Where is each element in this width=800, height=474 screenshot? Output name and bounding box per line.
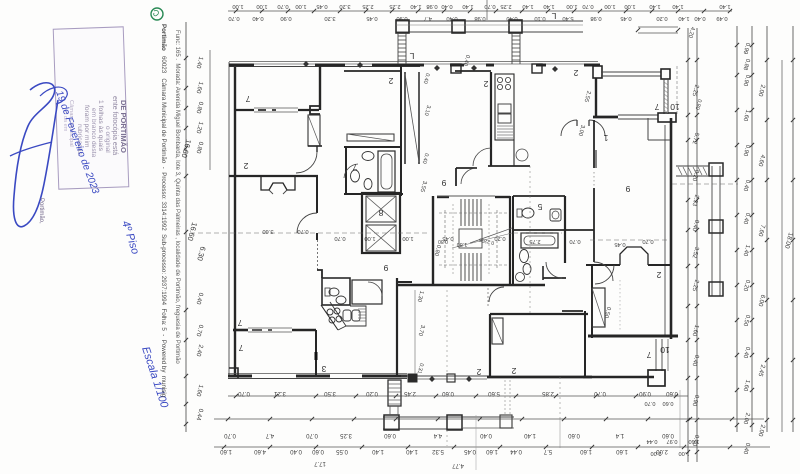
south balcony column 1 <box>384 415 399 430</box>
SE bedroom door arc <box>595 265 614 284</box>
projection lines bottom <box>475 415 477 470</box>
svg-text:Func: 165 . Morada: Avenida M: Func: 165 . Morada: Avenida Miguel Bomba… <box>174 30 180 364</box>
door arc right kitchen <box>473 148 491 166</box>
svg-text:0.44: 0.44 <box>510 448 522 454</box>
bath lower bathtub <box>521 233 558 248</box>
south facade left: sill lines <box>228 373 407 375</box>
outer wall: north facade thick piers <box>229 64 254 67</box>
svg-text:2.25: 2.25 <box>500 3 511 9</box>
svg-text:1.00: 1.00 <box>679 450 690 456</box>
bedroom SC walls <box>490 313 588 315</box>
NE step: wall y117 thick part <box>593 116 618 119</box>
svg-text:2.00: 2.00 <box>656 448 668 454</box>
corridor door arc east bottom <box>594 262 613 281</box>
svg-text:0.20: 0.20 <box>366 390 378 396</box>
svg-text:1.40: 1.40 <box>410 3 421 9</box>
kitchen east wall x397 <box>396 278 398 377</box>
NE step: corner pier right <box>661 69 670 79</box>
svg-text:2.75: 2.75 <box>529 238 540 244</box>
svg-text:0.98: 0.98 <box>426 3 437 9</box>
terrace wall below SE bedroom <box>584 311 586 378</box>
svg-text:1.00: 1.00 <box>402 235 413 241</box>
svg-text:0.70: 0.70 <box>228 15 239 21</box>
stair central landing rect <box>459 229 482 248</box>
svg-text:em branco desta: em branco desta <box>90 108 97 157</box>
svg-text:4.4: 4.4 <box>433 432 442 438</box>
top-right corner slab piece <box>638 26 678 28</box>
small wall below closet <box>308 145 322 147</box>
svg-text:0.60: 0.60 <box>312 448 324 454</box>
svg-text:17.7: 17.7 <box>314 460 326 466</box>
recess corner wall end <box>408 374 417 382</box>
south-east room bottom wall <box>588 335 678 338</box>
svg-text:0.45: 0.45 <box>614 241 625 247</box>
stove circles right kitchen <box>497 77 502 82</box>
north balcony slab edges <box>396 20 583 22</box>
duct shaft narrow with diagonal <box>404 72 406 164</box>
corridor-bath wall y230 <box>565 229 594 231</box>
SW room divider vertical x316 <box>315 330 317 377</box>
svg-text:3.20: 3.20 <box>324 15 335 21</box>
svg-text:7: 7 <box>646 350 651 360</box>
svg-text:0.97: 0.97 <box>667 438 678 444</box>
SE pier <box>648 370 665 386</box>
bath 7 door arc <box>344 164 358 178</box>
bath 5 toilet <box>517 209 522 217</box>
wardrobe strip room2-left <box>347 134 394 141</box>
svg-text:1.80: 1.80 <box>457 241 468 247</box>
door arc into room 2 left apt <box>296 152 317 173</box>
bath corridor walls SE corner <box>543 277 566 279</box>
svg-text:3.20: 3.20 <box>339 3 350 9</box>
stair dashed guides <box>444 210 446 270</box>
svg-text:5.40: 5.40 <box>562 15 573 21</box>
svg-text:5.60: 5.60 <box>488 390 500 396</box>
WC cell <box>322 278 350 305</box>
sink SW kitchen <box>343 310 351 321</box>
NE step: window band vertical <box>663 79 665 114</box>
svg-text:7: 7 <box>654 102 659 112</box>
bath 7 bidet <box>364 179 372 190</box>
svg-text:1.60: 1.60 <box>486 448 498 454</box>
top dimension chain line <box>228 10 732 12</box>
south balcony column 2 <box>447 415 462 430</box>
svg-text:0.70: 0.70 <box>334 235 345 241</box>
south hatched pier connector <box>389 406 391 415</box>
divider y110 hatch marks <box>258 109 266 111</box>
svg-text:8: 8 <box>378 208 383 218</box>
right double dimension lines <box>687 28 689 462</box>
svg-text:7: 7 <box>352 162 357 172</box>
bath lower door arc <box>546 262 562 278</box>
svg-text:0.45: 0.45 <box>620 15 631 21</box>
counter outline SW kitchen <box>346 306 366 326</box>
svg-text:o original: o original <box>104 126 111 153</box>
svg-text:0.40: 0.40 <box>480 432 492 438</box>
svg-text:L: L <box>409 51 414 61</box>
bath 5 washbasin <box>550 209 561 221</box>
svg-text:DE PORTIMÃO: DE PORTIMÃO <box>119 100 128 153</box>
center dashed dim line <box>190 232 430 234</box>
bottom dimension chains <box>228 395 688 397</box>
left apt: divider wall y110 <box>236 109 254 111</box>
stairwell walls <box>432 196 434 286</box>
small square on wall second <box>532 64 542 73</box>
svg-text:2.25: 2.25 <box>362 3 373 9</box>
dotted projection bottom-right <box>619 280 621 332</box>
north balcony hatched pier right <box>511 33 513 64</box>
door arc hall entry <box>461 168 477 184</box>
east balcony double rails <box>711 166 713 296</box>
Portimao logo top-left <box>151 8 163 20</box>
sink right kitchen <box>498 104 511 113</box>
svg-text:2.25: 2.25 <box>389 3 400 9</box>
svg-text:4.7: 4.7 <box>265 432 274 438</box>
svg-text:10: 10 <box>660 345 670 355</box>
svg-text:0.60: 0.60 <box>662 432 674 438</box>
svg-text:0.40: 0.40 <box>694 15 705 21</box>
svg-text:1.40: 1.40 <box>672 3 683 9</box>
svg-text:1.60: 1.60 <box>616 448 628 454</box>
south entrance recess thin line <box>401 375 490 377</box>
svg-text:0.45: 0.45 <box>464 448 476 454</box>
elevator shaft 8 <box>362 193 400 253</box>
niche trapezoid SE bedroom <box>620 247 648 265</box>
closet right of room 2 <box>308 115 320 146</box>
svg-text:0.90: 0.90 <box>639 390 651 396</box>
SE balcony pillar connector lines <box>655 339 657 371</box>
svg-text:0.60: 0.60 <box>384 432 396 438</box>
svg-text:0.70: 0.70 <box>582 3 593 9</box>
svg-text:1.40: 1.40 <box>372 448 384 454</box>
kitchenette top unit <box>352 280 382 304</box>
svg-text:2: 2 <box>511 366 516 376</box>
north balcony hatched pier left <box>397 33 399 64</box>
bath lower washbasin circle <box>516 273 525 282</box>
hall west wall x401 <box>400 66 402 196</box>
living room top wall y176 <box>229 175 318 177</box>
outer wall: north facade sill lines <box>229 61 598 63</box>
svg-text:4.7: 4.7 <box>424 15 432 21</box>
window right wall NE bedroom inner sill <box>595 150 597 168</box>
bath 7 walls <box>344 146 401 148</box>
svg-text:1.60: 1.60 <box>580 448 592 454</box>
door arc kitchenette <box>368 282 382 296</box>
svg-text:4.77: 4.77 <box>452 462 464 468</box>
svg-text:2: 2 <box>656 270 661 280</box>
NE step: dashed outside line <box>676 66 678 114</box>
WC toilet <box>325 288 330 296</box>
svg-text:4.60: 4.60 <box>254 448 266 454</box>
stair treads upper flight <box>460 199 462 226</box>
short dim line above middle column <box>486 0 488 20</box>
pier jog below x320 wall <box>310 106 320 114</box>
svg-text:3: 3 <box>321 364 326 374</box>
NE window band inner hatch <box>664 82 668 85</box>
north balcony column 3 <box>509 20 522 33</box>
svg-text:1.00: 1.00 <box>295 3 306 9</box>
svg-text:0.40: 0.40 <box>441 3 452 9</box>
south pier under kitchen (hatched) <box>388 380 401 406</box>
svg-text:0.70: 0.70 <box>569 238 580 244</box>
svg-text:0.90: 0.90 <box>280 15 291 21</box>
svg-text:0.45: 0.45 <box>316 3 327 9</box>
svg-text:1.40: 1.40 <box>406 448 418 454</box>
svg-text:0.60: 0.60 <box>442 390 454 396</box>
svg-text:2.85: 2.85 <box>542 390 554 396</box>
svg-text:Portimão,: Portimão, <box>38 198 44 224</box>
middle right walls near terrace <box>562 310 583 312</box>
NE bedroom wardrobe <box>647 118 649 140</box>
right apt corridor wall x594 lower <box>593 188 595 262</box>
window axis diamonds on north wall <box>434 65 440 71</box>
svg-text:0.49: 0.49 <box>716 15 727 21</box>
east balcony column A <box>709 163 723 176</box>
svg-text:1.40: 1.40 <box>678 15 689 21</box>
svg-text:7: 7 <box>238 343 243 353</box>
certification stamp box <box>53 27 129 189</box>
SE bedroom closet diagonal <box>592 288 605 327</box>
door arc SC bedroom top <box>489 287 504 302</box>
svg-text:0.45: 0.45 <box>366 15 377 21</box>
left apt: first vertical wall x320 <box>319 64 321 110</box>
svg-text:0.20: 0.20 <box>494 235 505 241</box>
bath 7 toilet <box>351 170 360 182</box>
top middle wall y71 left segment <box>344 70 401 72</box>
svg-text:9: 9 <box>625 184 630 194</box>
left vertical dimension chain <box>185 22 187 432</box>
svg-text:1 folhas às quais: 1 folhas às quais <box>97 100 104 152</box>
bath lower bidet <box>523 264 531 275</box>
svg-text:5.7: 5.7 <box>543 448 552 454</box>
svg-text:foram por mim: foram por mim <box>83 105 90 148</box>
svg-text:9: 9 <box>383 263 388 273</box>
stair diagonal pencil lines <box>470 228 512 243</box>
svg-text:1.00: 1.00 <box>364 235 375 241</box>
NE bedroom double door arcs <box>561 120 577 136</box>
right kitchen lower counter <box>495 140 530 166</box>
east connector hatch <box>676 165 709 167</box>
living room east wall x317 <box>316 176 318 213</box>
svg-text:1.40: 1.40 <box>543 3 554 9</box>
NE step: corner pier to east wall <box>658 113 676 122</box>
south facade left thick piers <box>228 375 252 378</box>
svg-text:0.40: 0.40 <box>290 448 302 454</box>
svg-text:5: 5 <box>537 202 542 212</box>
fireplace niche <box>261 177 295 190</box>
svg-text:1.00: 1.00 <box>566 3 577 9</box>
svg-text:ente fotocópia está: ente fotocópia está <box>111 96 118 155</box>
svg-text:1.40: 1.40 <box>649 3 660 9</box>
NE step: window y117 <box>618 114 658 116</box>
svg-text:0.45: 0.45 <box>442 235 453 241</box>
north balcony third slab line <box>396 24 583 26</box>
bedroom SE north wall <box>586 264 620 266</box>
svg-text:2.45: 2.45 <box>404 390 416 396</box>
NE step: window band horizontal <box>601 71 661 73</box>
south balcony slab lines <box>383 416 514 418</box>
east facade wall double <box>670 118 673 339</box>
dashed projection lines bottom <box>446 290 448 376</box>
svg-text:0.10: 0.10 <box>534 15 545 21</box>
north facade small piers squares <box>451 64 461 73</box>
svg-text:2: 2 <box>243 161 248 171</box>
svg-text:0.60: 0.60 <box>568 432 580 438</box>
svg-text:0.20: 0.20 <box>656 15 667 21</box>
svg-text:0.60: 0.60 <box>666 390 678 396</box>
svg-text:3.25: 3.25 <box>340 432 352 438</box>
bath 5 walls <box>513 195 565 197</box>
corner counter diagonal band <box>321 305 338 330</box>
svg-text:1.40: 1.40 <box>719 3 730 9</box>
bath lower toilet <box>520 250 529 263</box>
NE step: corner pier at top wall end <box>593 66 602 78</box>
svg-text:0.70: 0.70 <box>306 432 318 438</box>
svg-text:0.55: 0.55 <box>336 448 348 454</box>
stove circles SW kitchen <box>327 309 333 315</box>
svg-text:2: 2 <box>573 68 578 78</box>
wall corner above WC <box>317 270 322 278</box>
svg-text:7: 7 <box>245 94 250 104</box>
svg-text:1.60: 1.60 <box>220 448 232 454</box>
svg-text:0.44: 0.44 <box>647 438 658 444</box>
corridor wall x513 <box>512 196 514 285</box>
svg-text:1.00: 1.00 <box>232 3 243 9</box>
svg-text:0.70: 0.70 <box>642 238 653 244</box>
south balcony column small 3 <box>500 415 512 428</box>
svg-text:0.40: 0.40 <box>252 15 263 21</box>
right apt top wall y71 center <box>455 70 491 72</box>
svg-text:1.4: 1.4 <box>615 432 624 438</box>
svg-text:2: 2 <box>476 367 481 377</box>
svg-text:0.98: 0.98 <box>590 15 601 21</box>
svg-text:10: 10 <box>670 102 680 112</box>
bath 7 bathtub <box>378 151 395 192</box>
svg-text:0.70: 0.70 <box>238 390 250 396</box>
svg-text:3.50: 3.50 <box>324 390 336 396</box>
svg-text:1.40: 1.40 <box>524 432 536 438</box>
right kitchen counter <box>495 74 514 140</box>
north balcony column 2 <box>452 20 465 33</box>
far right dimension cluster <box>736 26 738 432</box>
svg-text:7: 7 <box>237 318 242 328</box>
svg-text:2: 2 <box>388 76 393 86</box>
svg-text:0.70: 0.70 <box>484 3 495 9</box>
hall entry wall y168 <box>456 167 477 169</box>
drainer right kitchen <box>497 125 513 127</box>
wall y330 of SW rooms <box>233 329 248 332</box>
svg-text:0.98: 0.98 <box>474 15 485 21</box>
stair treads lower flight <box>460 253 462 281</box>
svg-text:Portimão 60023 Câmara Muni: Portimão 60023 Câmara Municipal de Porti… <box>160 24 167 398</box>
svg-text:1.40: 1.40 <box>522 3 533 9</box>
svg-text:0.70: 0.70 <box>277 3 288 9</box>
right apt kitchen west wall x491 <box>490 72 492 166</box>
svg-text:1.40: 1.40 <box>462 3 473 9</box>
svg-text:3.21: 3.21 <box>274 390 286 396</box>
WC washbasin <box>336 296 346 304</box>
bath 7 washbasin <box>362 152 374 161</box>
outer wall: west facade (double line) <box>228 62 230 377</box>
svg-text:1: 1 <box>603 133 608 143</box>
svg-text:1.00: 1.00 <box>256 3 267 9</box>
right apt corridor wall x594 upper <box>593 120 595 168</box>
svg-text:0.70: 0.70 <box>224 432 236 438</box>
bedroom SE west wall <box>591 264 593 338</box>
svg-text:1.00: 1.00 <box>604 3 615 9</box>
svg-text:1.00: 1.00 <box>624 3 635 9</box>
recess dim line with diamonds <box>417 378 487 380</box>
east balcony column C <box>709 282 723 296</box>
svg-text:2: 2 <box>483 79 488 89</box>
svg-text:L: L <box>551 11 556 21</box>
svg-text:5.32: 5.32 <box>432 448 444 454</box>
svg-text:0.60: 0.60 <box>663 400 674 406</box>
svg-text:0.70: 0.70 <box>594 390 606 396</box>
east balcony column B <box>709 220 723 233</box>
recess vertical dim line <box>414 290 416 374</box>
bedroom SC closet <box>492 318 503 344</box>
north balcony column 1 <box>396 20 409 33</box>
west wall bottom notch <box>229 368 238 378</box>
svg-text:0.70: 0.70 <box>645 400 656 406</box>
blue signature <box>13 83 58 227</box>
svg-text:9: 9 <box>441 178 446 188</box>
svg-text:1.60: 1.60 <box>689 438 700 444</box>
drainer hatch SW kitchen <box>358 308 366 310</box>
